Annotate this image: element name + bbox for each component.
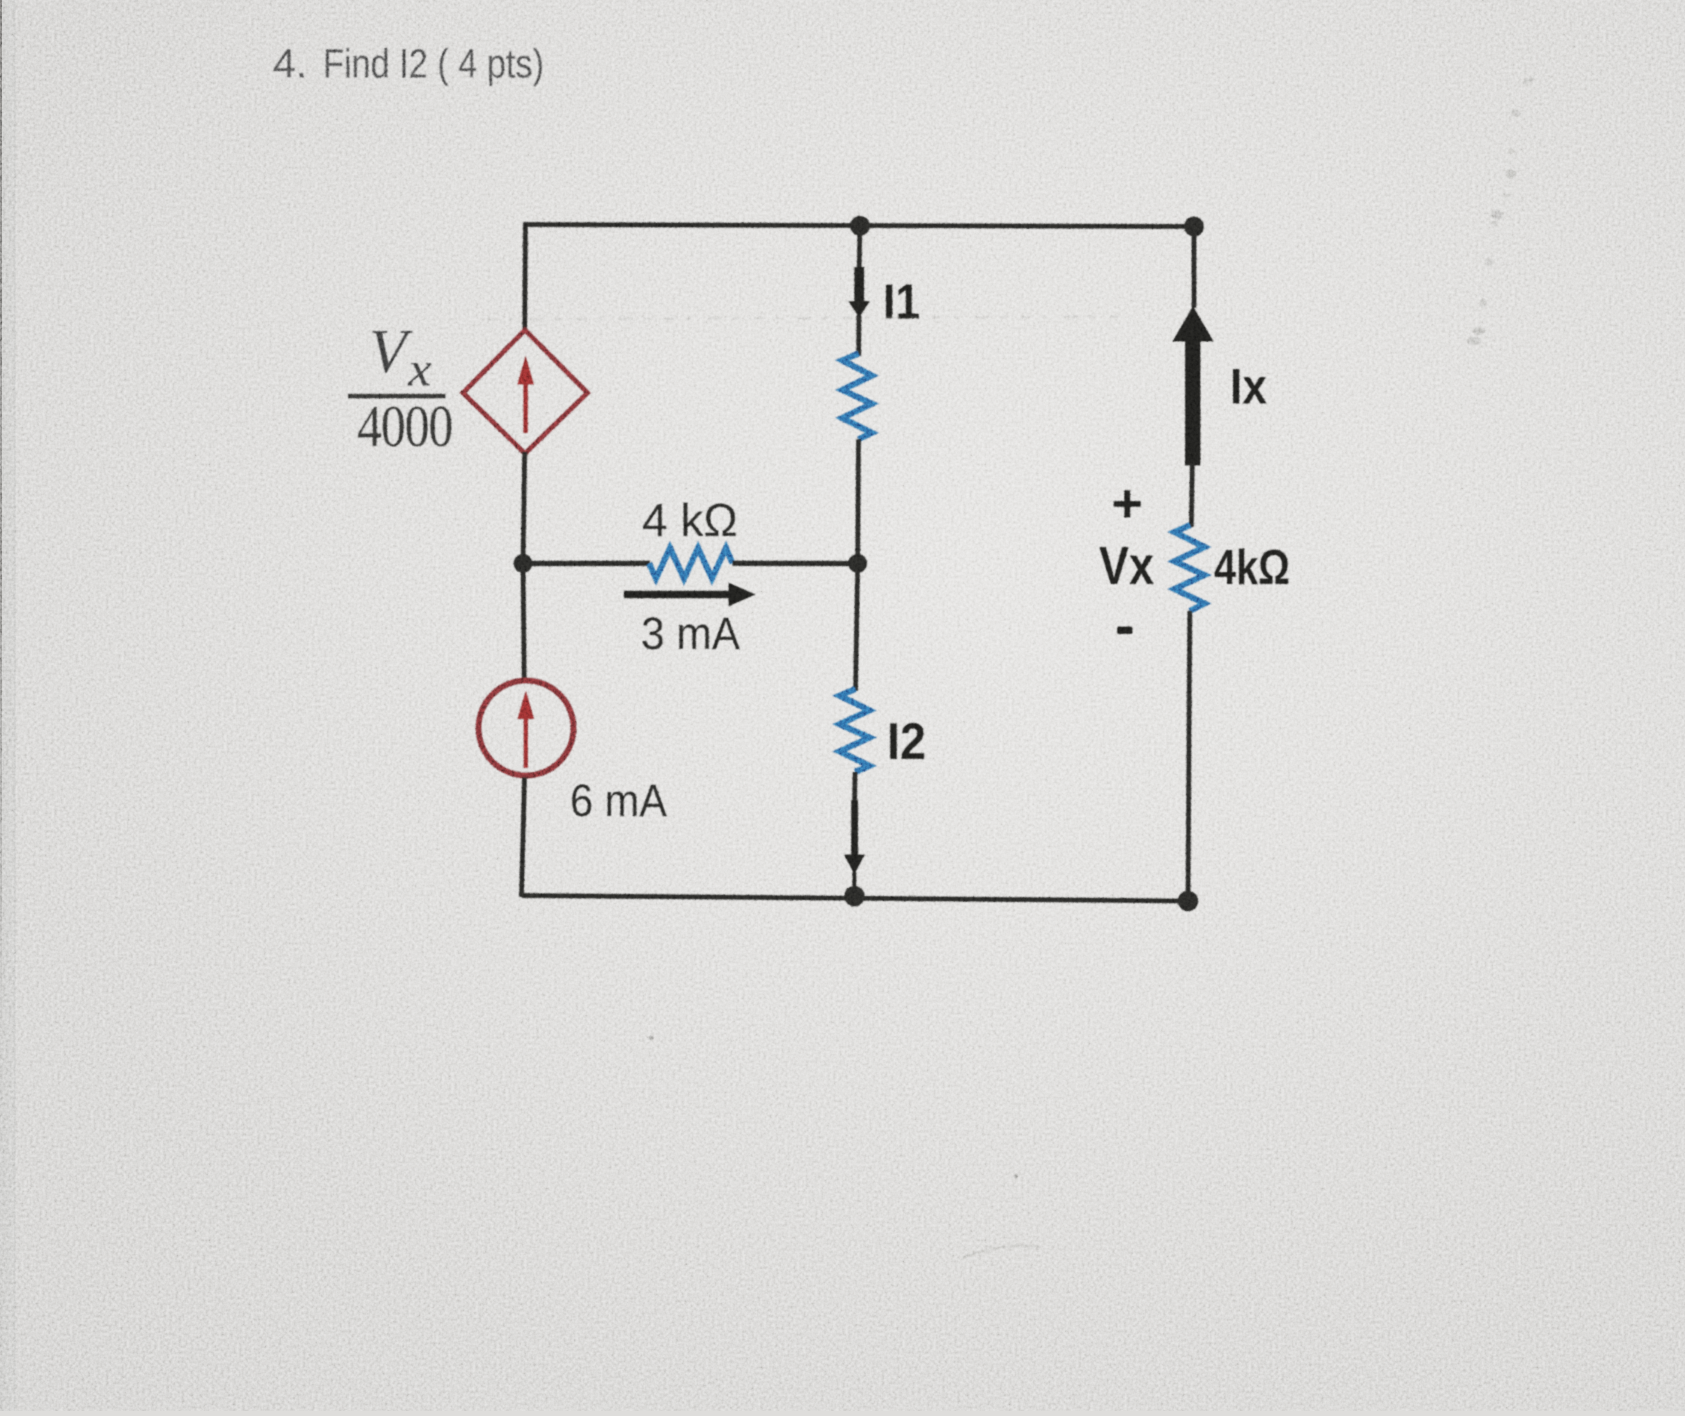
wire top right corner down — [1192, 227, 1197, 309]
label minus — [1117, 627, 1133, 635]
node top right dot — [1184, 217, 1204, 237]
wire R4 to bottom right corner — [1188, 611, 1190, 901]
wire resistor R2 to node B — [733, 561, 858, 567]
wire left middle (source to node A) — [523, 452, 525, 565]
resistor R3 zigzag I2 — [840, 689, 870, 772]
speck 2 — [1014, 1174, 1018, 1178]
arrow I2 (down) — [844, 800, 865, 894]
arrow Ix (up) — [1172, 306, 1213, 466]
wire R1 to node B — [855, 439, 861, 565]
node B dot — [848, 554, 867, 573]
node top middle dot — [850, 216, 870, 236]
current source I 6mA circle — [479, 681, 574, 776]
scratch — [962, 1246, 1040, 1258]
faint artifact line — [487, 317, 1128, 320]
current source arrow — [517, 691, 534, 769]
resistor R2 zigzag 4k horizontal — [649, 548, 733, 579]
arrow 3 mA (right) — [624, 583, 756, 607]
wire node A to resistor R2 (horizontal) — [523, 561, 650, 567]
node D dot (bottom right) — [1178, 891, 1199, 912]
wire left upper (corner to dependent source) — [522, 222, 528, 332]
dependent source arrow — [517, 356, 534, 433]
dependent source U1 diamond — [463, 330, 588, 454]
pencil smudge — [1467, 76, 1535, 345]
node A dot — [514, 554, 533, 573]
wire Ix arrow to resistor R4 — [1191, 463, 1192, 527]
wire top node down — [857, 226, 863, 270]
resistor R4 zigzag 4k right — [1175, 525, 1205, 611]
speck 1 — [649, 1036, 653, 1040]
arrow I1 (down) — [848, 267, 870, 318]
fraction bar — [348, 394, 446, 399]
wire node B down to resistor R3 — [856, 563, 858, 691]
wire R3 down — [852, 772, 857, 802]
wire left lower (source to corner) — [522, 778, 525, 898]
wire top — [525, 225, 1194, 227]
node C dot (bottom middle) — [844, 886, 865, 907]
wire bottom — [522, 896, 1189, 902]
wire node A to current source — [523, 563, 524, 679]
resistor R1 zigzag — [842, 354, 872, 440]
wire arrow to resistor R1 — [856, 315, 861, 356]
